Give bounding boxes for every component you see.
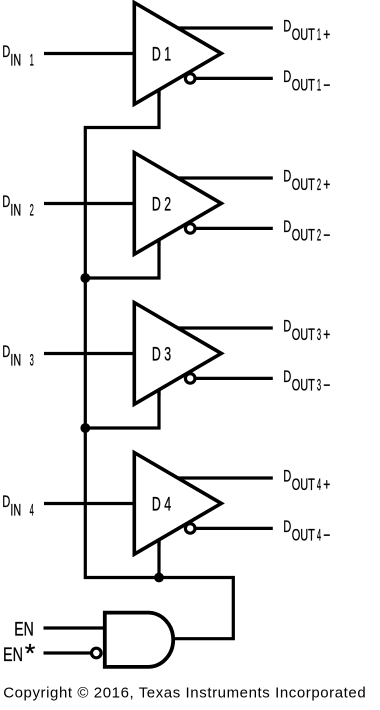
svg-text:D: D — [283, 468, 291, 486]
svg-text:OUT: OUT — [292, 377, 315, 395]
svg-text:1: 1 — [30, 52, 34, 70]
driver D2 enable stub wire from triangle bottom edge — [157, 239, 160, 247]
svg-text:+: + — [323, 176, 330, 194]
driver D1 inverting output wire (D_OUT1- net) — [190, 77, 273, 80]
svg-text:3: 3 — [317, 326, 321, 344]
svg-text:+: + — [323, 326, 330, 344]
driver D3 input wire (D_IN3 net) — [44, 352, 136, 355]
driver D3 inverting output bubble — [185, 374, 195, 384]
wire: D4 enable branch down to bottom enable run — [157, 539, 160, 578]
svg-text:D: D — [2, 343, 10, 361]
svg-text:OUT: OUT — [292, 326, 315, 344]
svg-text:IN: IN — [10, 352, 21, 370]
svg-text:IN: IN — [10, 202, 21, 220]
svg-text:+: + — [323, 26, 330, 44]
svg-text:D: D — [283, 518, 291, 536]
svg-text:D: D — [283, 368, 291, 386]
svg-text:4: 4 — [317, 476, 321, 494]
svg-text:D: D — [283, 68, 291, 86]
wire: D3 enable branch down-left to bus — [85, 389, 159, 429]
svg-text:D: D — [283, 318, 291, 336]
svg-text:−: − — [323, 227, 330, 245]
driver D1 enable stub wire from triangle bottom edge — [157, 89, 160, 97]
buffer driver D4 triangle — [134, 453, 221, 555]
svg-text:2: 2 — [30, 202, 34, 220]
wire: EN* input to AND gate bubble — [44, 651, 91, 654]
driver D3 enable stub wire from triangle bottom edge — [157, 389, 160, 397]
svg-text:*: * — [25, 638, 36, 668]
svg-text:OUT: OUT — [292, 77, 315, 95]
pin label D_OUT4+ — [283, 468, 330, 494]
driver D3 inverting output wire (D_OUT3- net) — [190, 377, 273, 380]
junction dot on bottom enable run at D4 branch — [154, 573, 164, 583]
driver D1 non-inverting output wire (D_OUT1+ net) — [178, 26, 273, 29]
driver D1 input wire (D_IN1 net) — [44, 52, 136, 55]
svg-text:+: + — [323, 476, 330, 494]
svg-text:4: 4 — [317, 527, 321, 545]
svg-text:D 4: D 4 — [152, 494, 171, 515]
driver D4 enable stub wire from triangle bottom edge — [157, 539, 160, 547]
pin label D_OUT4- — [283, 518, 330, 544]
buffer driver D3 triangle — [134, 303, 221, 405]
enable net wire: from D1 down to bus, bus down, bottom run right, down to AND gate output — [85, 89, 233, 639]
pin label D_OUT2+ — [283, 168, 330, 194]
svg-text:OUT: OUT — [292, 527, 315, 545]
svg-text:−: − — [323, 77, 330, 95]
svg-text:2: 2 — [317, 176, 321, 194]
svg-text:D 1: D 1 — [152, 44, 171, 65]
driver D2 input wire (D_IN2 net) — [44, 202, 136, 205]
svg-text:D: D — [2, 493, 10, 511]
junction dot on enable bus at D2 branch — [80, 273, 90, 283]
svg-text:D: D — [2, 193, 10, 211]
svg-text:4: 4 — [30, 502, 34, 520]
pin label D_IN4 — [2, 493, 34, 520]
driver D3 non-inverting output wire (D_OUT3+ net) — [178, 326, 273, 329]
pin label D_OUT1- — [283, 68, 330, 94]
svg-text:D: D — [283, 218, 291, 236]
svg-text:IN: IN — [10, 502, 21, 520]
wire: D2 enable branch down-left to bus — [85, 239, 159, 279]
pin label D_IN3 — [2, 343, 34, 370]
svg-text:D: D — [283, 168, 291, 186]
driver D4 inverting output wire (D_OUT4- net) — [190, 527, 273, 530]
pin label D_OUT3+ — [283, 318, 330, 344]
buffer driver D2 triangle — [134, 153, 221, 255]
svg-text:−: − — [323, 377, 330, 395]
svg-text:OUT: OUT — [292, 476, 315, 494]
svg-text:1: 1 — [317, 26, 321, 44]
AND gate U1 body — [105, 613, 173, 667]
driver D4 inverting output bubble — [185, 524, 195, 534]
buffer driver D1 triangle — [134, 3, 221, 105]
svg-text:OUT: OUT — [292, 176, 315, 194]
svg-text:OUT: OUT — [292, 26, 315, 44]
junction dot on enable bus at D3 branch — [80, 423, 90, 433]
svg-text:3: 3 — [317, 377, 321, 395]
pin label D_OUT1+ — [283, 18, 330, 44]
pin label D_IN1 — [2, 43, 34, 69]
svg-text:D 2: D 2 — [152, 194, 171, 215]
svg-text:Copyright © 2016, Texas Instru: Copyright © 2016, Texas Instruments Inco… — [3, 685, 366, 702]
svg-text:IN: IN — [10, 52, 21, 70]
svg-text:1: 1 — [317, 77, 321, 95]
pin label EN* — [3, 638, 35, 668]
driver D2 inverting output bubble — [185, 224, 195, 234]
pin label D_OUT2- — [283, 218, 330, 244]
svg-text:3: 3 — [30, 352, 34, 370]
svg-text:OUT: OUT — [292, 227, 315, 245]
svg-text:2: 2 — [317, 227, 321, 245]
pin label D_IN2 — [2, 193, 34, 220]
driver D1 inverting output bubble — [185, 74, 195, 84]
AND gate EN* input inverting bubble — [92, 648, 102, 658]
driver D2 inverting output wire (D_OUT2- net) — [190, 227, 273, 230]
svg-text:D: D — [283, 18, 291, 36]
svg-text:EN: EN — [3, 644, 23, 666]
pin label D_OUT3- — [283, 368, 330, 394]
driver D2 non-inverting output wire (D_OUT2+ net) — [178, 176, 273, 179]
svg-text:D 3: D 3 — [152, 344, 171, 365]
svg-text:D: D — [2, 43, 10, 61]
svg-text:−: − — [323, 527, 330, 545]
wire: EN input to AND gate — [44, 626, 108, 629]
driver D4 non-inverting output wire (D_OUT4+ net) — [178, 476, 273, 479]
driver D4 input wire (D_IN4 net) — [44, 502, 136, 505]
